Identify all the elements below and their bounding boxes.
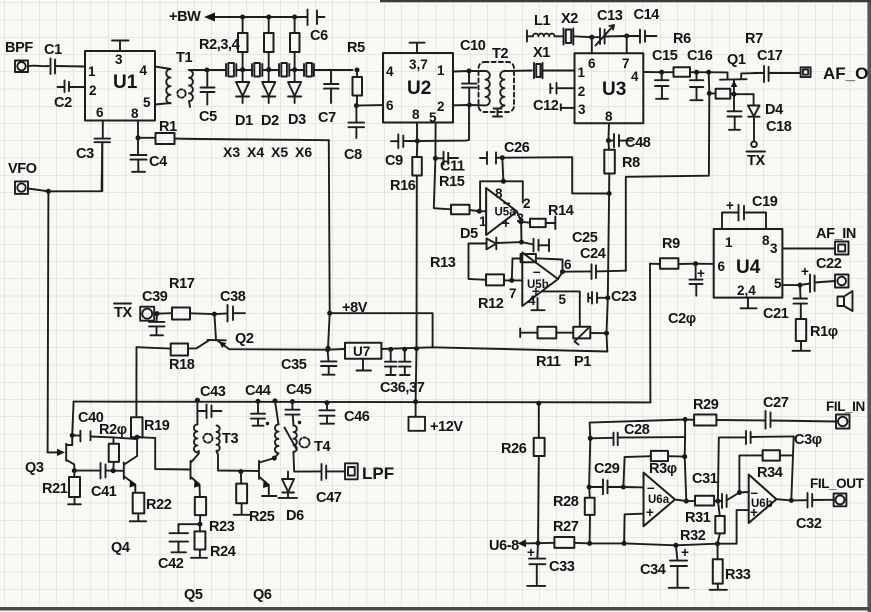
svg-text:U4: U4 bbox=[736, 257, 761, 278]
svg-text:TX: TX bbox=[114, 305, 132, 321]
T1 primary winding bbox=[166, 69, 170, 103]
node junction U5b inv input bbox=[509, 278, 514, 283]
resistor R2 bbox=[238, 17, 248, 70]
svg-text:3: 3 bbox=[770, 241, 778, 256]
node junction D2 bbox=[266, 67, 271, 72]
svg-text:2: 2 bbox=[578, 84, 586, 99]
capacitor C8 bbox=[349, 106, 365, 138]
svg-text:R8: R8 bbox=[622, 155, 640, 171]
ground T2 secondary bbox=[493, 105, 505, 116]
capacitor C43 bbox=[197, 405, 221, 419]
svg-text:FIL_IN: FIL_IN bbox=[826, 399, 865, 414]
node junction U5a inv input bbox=[477, 209, 482, 214]
svg-text:+: + bbox=[801, 264, 809, 279]
node junction R2 top bbox=[240, 15, 245, 20]
node junction C43 rail bbox=[195, 398, 200, 403]
svg-text:Q3: Q3 bbox=[25, 460, 44, 476]
svg-text:7: 7 bbox=[509, 286, 517, 301]
wire Q3 source row bbox=[74, 470, 100, 472]
svg-text:LPF: LPF bbox=[362, 464, 394, 483]
node junction R30 right bbox=[682, 454, 687, 459]
svg-text:R12: R12 bbox=[478, 296, 504, 312]
svg-text:8: 8 bbox=[131, 106, 139, 121]
svg-text:C15: C15 bbox=[652, 48, 678, 64]
svg-text:R14: R14 bbox=[548, 203, 574, 219]
node junction T1/C5 bbox=[205, 68, 210, 73]
wire U2 pin5 down bbox=[434, 123, 451, 210]
svg-text:R21: R21 bbox=[42, 481, 68, 497]
speaker icon bbox=[838, 291, 853, 311]
node junction R23/R24 bbox=[197, 522, 202, 527]
svg-text:8: 8 bbox=[762, 233, 770, 248]
svg-text:C28: C28 bbox=[624, 422, 650, 438]
node junction C16 bbox=[694, 70, 699, 75]
svg-text:C34: C34 bbox=[640, 562, 666, 578]
node junction U5a output bbox=[519, 219, 524, 224]
svg-text:R31: R31 bbox=[685, 510, 711, 526]
wire U5b +in to P1 wiper bbox=[542, 291, 580, 326]
svg-text:C22: C22 bbox=[816, 256, 842, 272]
T2 primary winding bbox=[485, 71, 489, 105]
node junction R25 bbox=[238, 469, 243, 474]
capacitor C42 bbox=[170, 524, 200, 552]
node junction U3 pin7 top bbox=[624, 34, 629, 39]
wire U6-8 line right bbox=[574, 543, 736, 546]
svg-text:C39: C39 bbox=[142, 289, 168, 305]
wire T3 right bottom to Q6 base bbox=[217, 451, 259, 471]
node junction C10 top bbox=[467, 69, 472, 74]
svg-text:–: – bbox=[647, 480, 655, 495]
capacitor C10 bbox=[462, 71, 477, 105]
node junction P1 right bbox=[604, 331, 609, 336]
node junction U6a +in rail bbox=[622, 541, 627, 546]
svg-text:3: 3 bbox=[578, 102, 586, 117]
svg-text:R24: R24 bbox=[210, 544, 236, 560]
node junction U6a output bbox=[684, 499, 689, 504]
svg-text:R28: R28 bbox=[553, 494, 579, 510]
svg-text:C2φ: C2φ bbox=[668, 311, 696, 327]
svg-text:C43: C43 bbox=[200, 384, 226, 400]
node junction U6b output bbox=[789, 498, 794, 503]
page border right edge bbox=[868, 0, 871, 612]
svg-text:R9: R9 bbox=[662, 236, 680, 252]
svg-text:C1: C1 bbox=[44, 42, 62, 58]
svg-text:2,4: 2,4 bbox=[737, 283, 756, 298]
svg-text:R5: R5 bbox=[347, 40, 365, 56]
node VFO junction bbox=[46, 189, 51, 194]
svg-text:C45: C45 bbox=[286, 382, 312, 398]
svg-text:C4: C4 bbox=[149, 154, 167, 170]
svg-text:AF_O: AF_O bbox=[823, 64, 868, 83]
svg-text:X1: X1 bbox=[533, 45, 550, 61]
wire pin6 riser bbox=[591, 37, 593, 53]
node junction C34 bbox=[673, 543, 678, 548]
svg-text:C38: C38 bbox=[220, 289, 246, 305]
wire X3-X6 net down to +8V node bbox=[328, 140, 330, 348]
svg-text:Q2: Q2 bbox=[235, 331, 254, 347]
wire R18 left down to R19 bbox=[135, 347, 137, 417]
node junction C29 left bbox=[587, 485, 592, 490]
terminal LPF bbox=[345, 463, 358, 479]
wire U6b +in to U6-8 end bbox=[737, 510, 749, 544]
node junction C48 bbox=[606, 138, 611, 143]
svg-text:C23: C23 bbox=[611, 289, 637, 305]
wire U6-8 line bbox=[524, 542, 554, 545]
node junction D3 bbox=[292, 67, 297, 72]
svg-text:3: 3 bbox=[115, 52, 123, 67]
terminal +12V bbox=[409, 402, 426, 431]
svg-text:C21: C21 bbox=[763, 306, 789, 322]
svg-text:–: – bbox=[533, 264, 541, 279]
svg-text:Q1: Q1 bbox=[727, 52, 746, 68]
capacitor C18 bbox=[728, 94, 742, 130]
node junction Q3 source bbox=[72, 468, 77, 473]
svg-text:C35: C35 bbox=[281, 357, 307, 373]
svg-text:R2,3,4: R2,3,4 bbox=[199, 37, 240, 53]
node junction C26 bbox=[500, 155, 505, 160]
wire U6a +in to U6-8 bbox=[624, 514, 643, 544]
capacitor C26 bbox=[480, 152, 502, 164]
svg-text:U3: U3 bbox=[602, 79, 626, 100]
svg-text:R23: R23 bbox=[209, 519, 235, 535]
svg-text:6: 6 bbox=[96, 105, 104, 120]
wire R28 to C28 branch bbox=[589, 438, 590, 487]
node junction C20 bbox=[693, 261, 698, 266]
svg-text:C10: C10 bbox=[460, 38, 486, 54]
svg-text:C2: C2 bbox=[54, 95, 72, 111]
svg-text:C27: C27 bbox=[763, 395, 789, 411]
svg-text:R27: R27 bbox=[553, 519, 579, 535]
pin 3 top stub with bar bbox=[112, 41, 129, 52]
wire C9 node to pin2 riser bbox=[417, 105, 469, 141]
wire T4 secondary to C47 bbox=[294, 452, 322, 472]
wire main vertical R8 to +8V rail bbox=[607, 194, 610, 352]
capacitor C48 bbox=[608, 134, 632, 147]
svg-text:R33: R33 bbox=[725, 567, 751, 583]
wire C26 node down to U5a loop bbox=[502, 158, 503, 182]
crystal X3 bbox=[226, 63, 252, 77]
svg-text:Q5: Q5 bbox=[184, 587, 203, 603]
wire pin7 riser bbox=[626, 36, 628, 53]
wire U2 pin2 to C10 node bbox=[453, 104, 469, 106]
svg-text:R6: R6 bbox=[673, 31, 691, 47]
svg-text:Q4: Q4 bbox=[111, 540, 130, 556]
diode D1 bbox=[236, 70, 249, 103]
capacitor C1 bbox=[51, 59, 56, 75]
capacitor C3 bbox=[95, 121, 111, 192]
node junction Q1 source bbox=[732, 92, 737, 97]
svg-text:C26: C26 bbox=[504, 140, 530, 156]
node junction +12V terminal bbox=[413, 399, 418, 404]
svg-text:C13: C13 bbox=[597, 8, 623, 24]
node junction R19 bottom / Q4 collector bbox=[135, 435, 140, 440]
svg-text:C7: C7 bbox=[318, 110, 336, 126]
capacitor C25 bbox=[522, 239, 550, 252]
op-amp U5a bbox=[486, 188, 517, 235]
capacitor C28 bbox=[590, 433, 685, 446]
wire rail down to T4 bbox=[275, 401, 279, 425]
svg-text:5: 5 bbox=[559, 292, 567, 307]
node junction C39 bbox=[155, 311, 160, 316]
node junction U6a inv bbox=[621, 485, 626, 490]
wire T2 secondary top to X1 bbox=[505, 70, 532, 73]
svg-text:D1: D1 bbox=[235, 113, 253, 129]
svg-text:D2: D2 bbox=[261, 113, 279, 129]
svg-text:R1φ: R1φ bbox=[810, 324, 838, 340]
svg-text:R17: R17 bbox=[169, 276, 195, 292]
ground U5b pin4 bbox=[531, 298, 544, 310]
capacitor C45 bbox=[290, 399, 295, 404]
terminal VFO bbox=[15, 181, 28, 194]
svg-text:4: 4 bbox=[631, 69, 639, 84]
svg-text:R7: R7 bbox=[745, 31, 763, 47]
terminal speaker out bbox=[835, 275, 849, 288]
svg-text:C31: C31 bbox=[692, 471, 718, 487]
svg-text:C36,37: C36,37 bbox=[380, 380, 425, 396]
svg-text:+: + bbox=[502, 216, 510, 231]
node junction C15 bbox=[659, 70, 664, 75]
wire R9 left down to +12V rail bbox=[649, 264, 651, 403]
svg-text:C33: C33 bbox=[549, 559, 575, 575]
svg-text:8: 8 bbox=[412, 107, 420, 122]
svg-text:2: 2 bbox=[89, 83, 97, 98]
svg-text:R19: R19 bbox=[144, 418, 170, 434]
crystal X6 bbox=[304, 63, 353, 77]
wire inv node to U6a bbox=[623, 486, 643, 488]
node junction R5/C8 bbox=[354, 103, 359, 108]
ground U4 pins 2,4 bbox=[741, 298, 757, 309]
wire rail left end down bbox=[72, 402, 73, 436]
svg-text:VFO: VFO bbox=[8, 161, 37, 177]
capacitor C23 bbox=[588, 292, 608, 304]
node junction +8V branch bbox=[327, 311, 332, 316]
svg-text:C14: C14 bbox=[634, 7, 660, 23]
mixer IC U2 bbox=[383, 53, 453, 123]
capacitor C6 bbox=[296, 10, 325, 26]
svg-text:D4: D4 bbox=[765, 102, 783, 118]
capacitor C30 bbox=[746, 431, 794, 444]
svg-text:BPF: BPF bbox=[5, 40, 33, 56]
svg-text:+: + bbox=[726, 198, 734, 213]
terminal TX bbox=[140, 307, 154, 321]
wire T3 left bottom to Q5 collector bbox=[197, 451, 198, 452]
capacitor C39 bbox=[149, 314, 165, 336]
T1 core circle bbox=[177, 89, 185, 97]
svg-text:+: + bbox=[646, 505, 654, 520]
wire C30 loop bbox=[718, 437, 746, 501]
node junction U5b output bbox=[560, 269, 565, 274]
svg-text:6: 6 bbox=[564, 257, 572, 272]
svg-text:T3: T3 bbox=[222, 431, 238, 447]
wire R34 left down to inv node bbox=[739, 455, 748, 492]
op-amp U6a bbox=[644, 473, 676, 527]
capacitor C46 bbox=[325, 400, 330, 405]
node junction C35 bbox=[325, 347, 330, 352]
svg-text:Q6: Q6 bbox=[253, 587, 272, 603]
diode D2 bbox=[262, 70, 275, 103]
svg-text:C29: C29 bbox=[594, 461, 620, 477]
svg-text:R34: R34 bbox=[757, 465, 783, 481]
pin 3 stub bbox=[561, 104, 575, 110]
node junction C9/R16 bbox=[415, 139, 420, 144]
wire filter input line bbox=[590, 420, 695, 439]
svg-text:C47: C47 bbox=[316, 490, 342, 506]
node junction C23 bbox=[605, 295, 610, 300]
wire U1 pin5 to T1 bbox=[155, 103, 171, 105]
T2 secondary winding bbox=[500, 71, 504, 105]
node junction C28 left bbox=[588, 436, 593, 441]
svg-text:P1: P1 bbox=[574, 354, 591, 370]
wire +12V rail bbox=[74, 401, 651, 404]
svg-text:1: 1 bbox=[437, 63, 445, 78]
svg-text:R15: R15 bbox=[439, 174, 465, 190]
capacitor C37 bbox=[399, 349, 411, 375]
node junction C33 bbox=[536, 541, 541, 546]
svg-text:C44: C44 bbox=[245, 383, 271, 399]
wire rail down to T3 bbox=[196, 400, 198, 424]
svg-text:U6-8: U6-8 bbox=[489, 538, 519, 554]
resistor R7 bbox=[707, 72, 734, 98]
svg-text:D6: D6 bbox=[286, 508, 304, 524]
svg-text:8: 8 bbox=[605, 109, 613, 124]
T1 secondary winding bbox=[189, 70, 193, 101]
capacitor C35 bbox=[321, 350, 337, 375]
wire TX to R17 bbox=[154, 312, 172, 315]
capacitor C32 bbox=[791, 493, 833, 508]
capacitor C15 bbox=[655, 72, 669, 99]
node junction Q6 collector / T4 bbox=[272, 456, 277, 461]
capacitor C29 bbox=[589, 479, 623, 494]
svg-text:1: 1 bbox=[578, 65, 586, 80]
wire +BW bus with arrow bbox=[213, 16, 306, 18]
wire U3 pin8 down bbox=[607, 123, 610, 140]
capacitor C41 bbox=[101, 463, 123, 479]
wire crystal ladder line bbox=[207, 69, 226, 71]
capacitor C36 bbox=[385, 349, 397, 375]
wire U4 pin5 out bbox=[782, 284, 800, 286]
wire U3 pin4 out bbox=[643, 71, 661, 73]
svg-text:C48: C48 bbox=[625, 135, 651, 151]
wire T1 secondary top to node bbox=[189, 69, 207, 71]
node junction R29 line bbox=[683, 417, 688, 422]
capacitor C31 bbox=[718, 493, 740, 509]
svg-text:R29: R29 bbox=[693, 397, 719, 413]
wire C30 right riser to output bbox=[791, 436, 793, 500]
svg-text:C24: C24 bbox=[580, 246, 606, 262]
audio IC U4 bbox=[714, 229, 783, 298]
wire C26 to R8 bottom bbox=[502, 157, 609, 193]
capacitor C7 bbox=[324, 70, 339, 103]
wire T2 primary bottom bbox=[469, 104, 485, 106]
svg-text:D5: D5 bbox=[460, 226, 478, 242]
capacitor C47 bbox=[322, 464, 346, 480]
svg-text:1: 1 bbox=[88, 64, 96, 79]
svg-text:4: 4 bbox=[386, 64, 394, 79]
svg-text:8: 8 bbox=[495, 186, 503, 201]
capacitor C4 bbox=[131, 138, 147, 172]
svg-text:+: + bbox=[750, 505, 758, 520]
svg-text:R3φ: R3φ bbox=[649, 461, 677, 477]
svg-text:AF_IN: AF_IN bbox=[816, 226, 856, 242]
svg-text:1: 1 bbox=[725, 235, 733, 250]
svg-text:5: 5 bbox=[774, 276, 782, 291]
svg-text:4: 4 bbox=[528, 293, 536, 308]
wire U2 pin1 to C10 node bbox=[453, 70, 469, 73]
capacitor C9 bbox=[391, 135, 417, 149]
regulator U7 bbox=[345, 343, 381, 359]
capacitor C16 bbox=[690, 72, 703, 100]
svg-text:R11: R11 bbox=[536, 354, 561, 370]
crystal X5 bbox=[279, 63, 304, 77]
terminal BPF bbox=[15, 61, 28, 73]
node junction rail T4 bbox=[273, 398, 278, 403]
wire U4 pin3 to AF_IN bbox=[782, 248, 835, 250]
svg-text:R16: R16 bbox=[390, 178, 416, 194]
svg-text:7: 7 bbox=[622, 56, 630, 71]
svg-text:3,7: 3,7 bbox=[409, 57, 428, 72]
node junction C37 bbox=[402, 347, 407, 352]
wire U1 pin8 down bbox=[137, 121, 139, 138]
svg-text:C6: C6 bbox=[310, 28, 328, 44]
node junction U5a loop top bbox=[501, 179, 506, 184]
wire U5a out down to D5 line bbox=[520, 222, 522, 242]
node junction R8 bottom bbox=[607, 191, 612, 196]
wire U5a feedback loop bbox=[480, 181, 523, 211]
svg-text:6: 6 bbox=[718, 259, 726, 274]
svg-text:–: – bbox=[503, 195, 511, 210]
node junction Q1 gate bbox=[706, 70, 711, 75]
wire R1 to X3-X6 net corner bbox=[175, 139, 329, 141]
wire C24 riser to Q1 node bbox=[626, 93, 710, 270]
svg-text:T2: T2 bbox=[492, 46, 508, 62]
node junction R26 top bbox=[536, 401, 541, 406]
svg-text:C46: C46 bbox=[344, 409, 370, 425]
node junction R4 top bbox=[292, 15, 297, 20]
terminal AF_O bbox=[801, 67, 811, 77]
capacitor C40 bbox=[72, 431, 137, 442]
resistor R3 bbox=[264, 17, 274, 70]
resistor R4 bbox=[290, 17, 300, 70]
wire VFO to C3 bottom bbox=[28, 142, 102, 191]
wire C28 right riser bbox=[685, 420, 687, 502]
page border bottom edge bbox=[0, 607, 871, 611]
node junction C31/R32 bbox=[715, 499, 720, 504]
node junction U6b inv bbox=[737, 490, 742, 495]
wire rail right of U7 bbox=[381, 347, 607, 351]
svg-text:R26: R26 bbox=[501, 441, 527, 457]
capacitor C11 bbox=[435, 152, 458, 165]
diode D3 bbox=[288, 70, 301, 103]
wire +8V bypass to rail corner bbox=[330, 313, 433, 347]
node U1 pin8 junction bbox=[136, 135, 141, 140]
svg-text:C18: C18 bbox=[766, 119, 792, 135]
svg-text:R13: R13 bbox=[430, 255, 456, 271]
svg-text:FIL_OUT: FIL_OUT bbox=[810, 476, 865, 491]
svg-text:U7: U7 bbox=[353, 344, 370, 359]
node junction pin5 bbox=[798, 283, 803, 288]
wire VFO node down to Q3 bbox=[47, 191, 50, 452]
node junction C11 bbox=[433, 156, 438, 161]
op-amp U6b bbox=[749, 475, 777, 524]
svg-text:C12: C12 bbox=[533, 98, 559, 114]
svg-text:C19: C19 bbox=[752, 194, 778, 210]
node junction R32/R33 bbox=[715, 541, 720, 546]
op-amp U5b bbox=[522, 253, 558, 307]
pin 3,7 top stub with bar bbox=[410, 43, 425, 53]
capacitor C24 bbox=[563, 264, 626, 279]
op IC U1 bbox=[85, 51, 155, 121]
wire BPF to C1 bbox=[28, 65, 49, 68]
